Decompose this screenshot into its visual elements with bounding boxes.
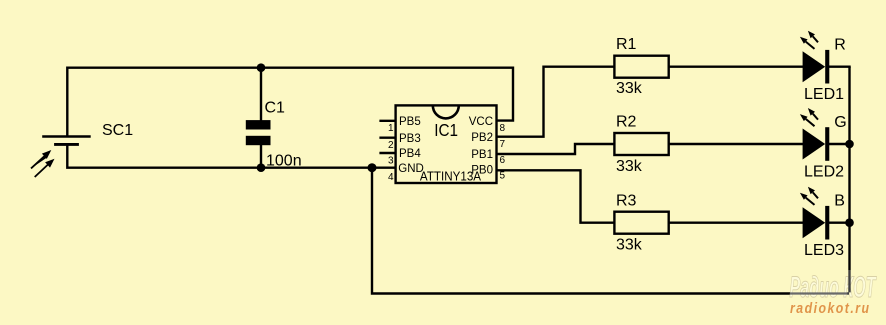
svg-text:100n: 100n (266, 153, 302, 170)
svg-text:SC1: SC1 (102, 122, 133, 139)
svg-text:LED3: LED3 (804, 242, 844, 259)
svg-text:PB3: PB3 (399, 133, 421, 145)
svg-text:6: 6 (500, 155, 506, 166)
svg-text:3: 3 (388, 155, 394, 166)
svg-text:2: 2 (388, 140, 394, 151)
svg-text:G: G (834, 114, 846, 131)
svg-text:1: 1 (388, 123, 394, 134)
svg-text:PB4: PB4 (399, 148, 421, 160)
svg-text:5: 5 (500, 170, 506, 181)
svg-text:33k: 33k (616, 158, 643, 175)
svg-text:7: 7 (500, 139, 506, 150)
svg-text:R: R (834, 37, 846, 54)
svg-text:ATTINY13A: ATTINY13A (420, 169, 482, 183)
svg-text:33k: 33k (616, 80, 643, 97)
svg-text:R2: R2 (616, 113, 637, 130)
svg-text:C1: C1 (265, 100, 286, 117)
svg-text:4: 4 (388, 172, 394, 183)
svg-text:VCC: VCC (469, 116, 493, 128)
svg-text:LED1: LED1 (804, 86, 844, 103)
svg-text:8: 8 (500, 123, 506, 134)
svg-text:R3: R3 (616, 192, 637, 209)
svg-text:IC1: IC1 (434, 120, 458, 140)
svg-text:R1: R1 (616, 36, 637, 53)
svg-text:PB2: PB2 (471, 132, 493, 144)
svg-text:B: B (834, 193, 845, 210)
svg-text:radiokot.ru: radiokot.ru (790, 300, 871, 317)
svg-text:PB5: PB5 (399, 116, 421, 128)
svg-text:PB1: PB1 (471, 149, 493, 161)
svg-text:33k: 33k (616, 236, 643, 253)
svg-text:LED2: LED2 (804, 164, 844, 181)
